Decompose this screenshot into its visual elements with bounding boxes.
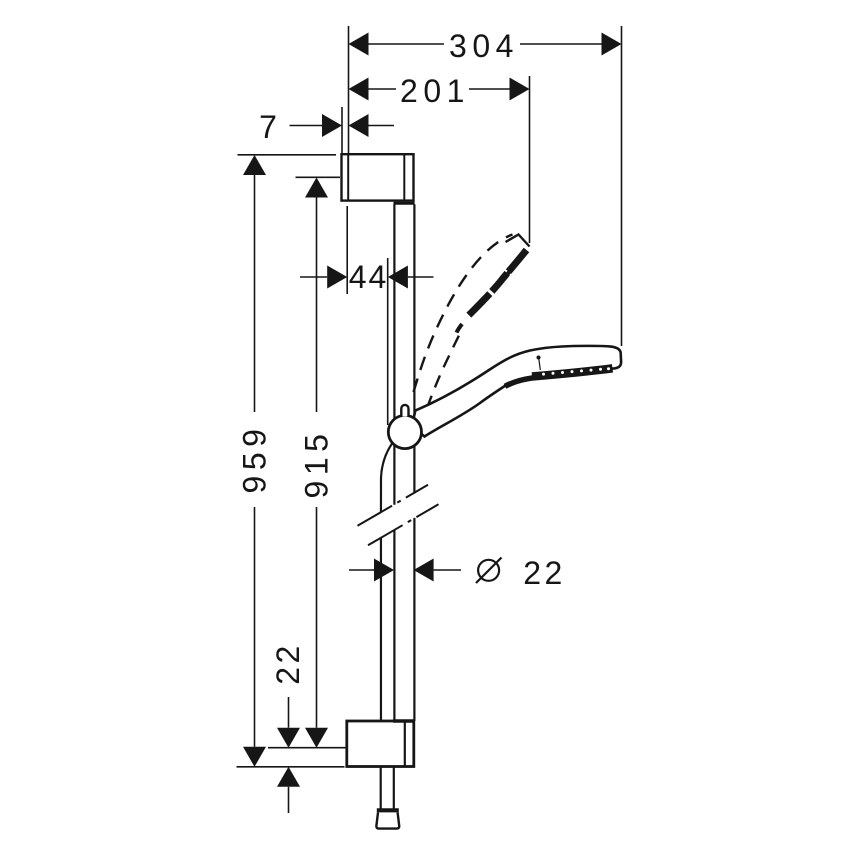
solid hand shower spray face band	[532, 368, 613, 376]
slider ball	[388, 415, 421, 448]
dimension 304	[349, 33, 622, 56]
extension line top of 915	[296, 176, 341, 178]
dimension 201	[349, 78, 530, 101]
button tick on shower head	[537, 356, 541, 371]
extension line right of 304	[621, 26, 623, 346]
solid hand shower face left crescent	[505, 378, 533, 387]
extension line right of 44	[387, 258, 389, 425]
hose end cone fitting	[376, 810, 399, 828]
extension line right of 201	[529, 76, 531, 243]
solid hand shower body	[412, 346, 621, 437]
svg-text:915: 915	[299, 429, 335, 499]
dimension 22 bottom	[277, 697, 300, 813]
dashed hand shower tip cap	[506, 235, 530, 247]
svg-text:44: 44	[349, 259, 389, 295]
shower hose upper	[381, 444, 392, 722]
svg-text:7: 7	[259, 109, 277, 145]
svg-text:201: 201	[400, 73, 470, 109]
dashed hand shower inner outline	[427, 331, 461, 408]
break mark upper	[358, 485, 429, 526]
rail top cap	[394, 202, 415, 205]
dashed hand shower outer outline	[414, 235, 513, 393]
extension line bottom of 915 and 22	[268, 747, 347, 749]
shower hose lower	[381, 767, 394, 810]
dimension 959	[243, 155, 266, 767]
svg-text:304: 304	[449, 28, 519, 64]
extension line top of 959	[238, 154, 337, 156]
svg-text:22: 22	[523, 555, 566, 591]
dimension 44	[300, 266, 434, 289]
extension line left of 44	[346, 206, 348, 294]
dashed hand shower spray face blobs	[456, 258, 521, 334]
extension line left of 304/201/7	[348, 26, 350, 154]
shower rail bar	[394, 204, 414, 721]
diameter symbol	[476, 558, 502, 584]
svg-text:22: 22	[270, 642, 306, 685]
dashed hand shower spray face band	[456, 250, 527, 333]
dimension 7	[290, 114, 395, 137]
wall bracket top	[342, 154, 414, 200]
extension line bottom of 959 and 22	[237, 766, 345, 768]
spray nozzle dots	[542, 367, 610, 375]
break mark lower	[368, 504, 439, 545]
extension line left of 7	[341, 107, 343, 154]
dimension diameter 22	[349, 559, 461, 582]
wall bracket bottom	[347, 721, 414, 767]
slider clamp lever	[401, 405, 408, 417]
dimension 915	[305, 178, 328, 748]
svg-text:959: 959	[237, 424, 273, 494]
